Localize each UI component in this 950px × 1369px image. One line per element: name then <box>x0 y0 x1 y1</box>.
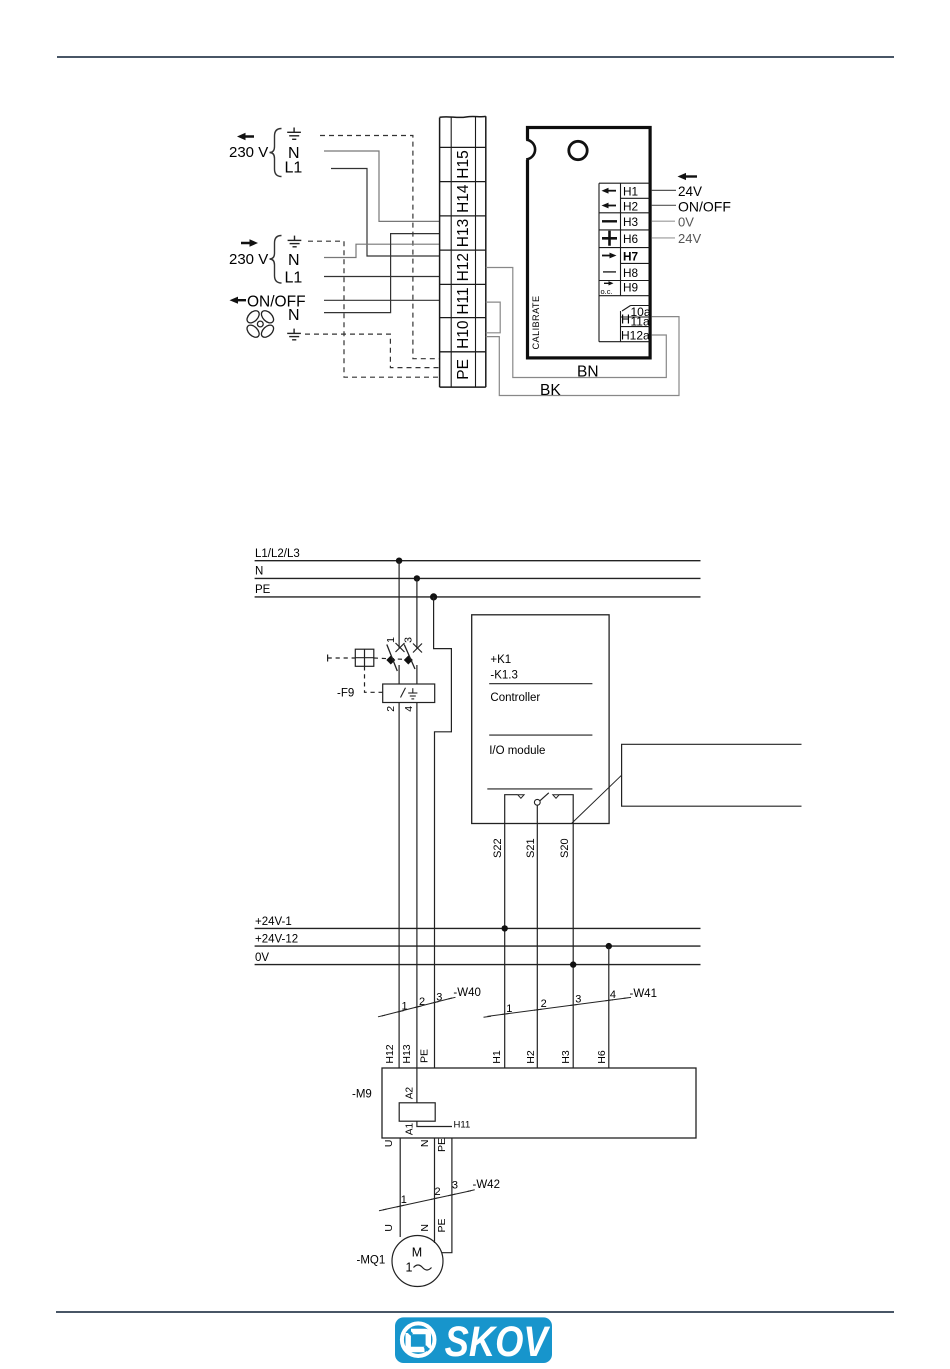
svg-text:PE: PE <box>455 359 472 380</box>
svg-text:1: 1 <box>506 1003 512 1015</box>
wire PE(fan) dashed to terminal PE <box>305 334 440 368</box>
wire N(out) to terminal H13 <box>324 151 440 221</box>
ground symbol (230V out PE) <box>287 128 301 140</box>
breaker F9 trip unit box <box>383 684 435 703</box>
wire N to motor <box>434 1138 436 1243</box>
wire H11 loop to H10 <box>486 302 500 333</box>
wire N(in) to terminal H13 <box>324 244 440 257</box>
svg-text:H2: H2 <box>623 199 638 213</box>
svg-text:H6: H6 <box>596 1050 608 1064</box>
svg-text:H3: H3 <box>623 215 639 229</box>
bus N <box>255 577 701 579</box>
svg-text:L1: L1 <box>285 160 303 177</box>
svg-text:H13: H13 <box>455 219 472 247</box>
ground symbol (fan PE) <box>287 329 301 340</box>
svg-text:L1: L1 <box>285 270 303 287</box>
svg-text:L1/L2/L3: L1/L2/L3 <box>255 548 300 560</box>
svg-text:H14: H14 <box>455 184 472 213</box>
bus L1/L2/L3 <box>255 560 701 562</box>
pin H3 symbol (minus) <box>602 220 617 222</box>
svg-text:BN: BN <box>577 364 599 381</box>
svg-text:4: 4 <box>610 989 616 1001</box>
ground symbol (230V in PE) <box>288 236 302 247</box>
svg-text:N: N <box>288 307 300 324</box>
svg-text:H3: H3 <box>560 1050 572 1064</box>
wire H6 from +24V-12 <box>608 946 610 1068</box>
wire pole2 down to M9 H13 <box>416 703 418 1069</box>
wire PE(out) dashed to terminal PE <box>320 136 440 359</box>
wire H1 24V <box>652 189 676 191</box>
wire H2 ON/OFF <box>652 204 676 206</box>
svg-text:A2: A2 <box>405 1086 416 1099</box>
svg-text:0V: 0V <box>678 214 694 229</box>
node +24V-1 tap <box>502 925 508 931</box>
svg-text:H11: H11 <box>455 287 472 314</box>
svg-text:230 V: 230 V <box>229 144 268 161</box>
wire L1(out) to terminal H12 <box>331 169 440 257</box>
wire pole2 to trip box <box>416 665 418 684</box>
svg-text:2: 2 <box>541 998 547 1010</box>
cable W42 marker <box>383 1191 471 1210</box>
breaker F9 test-button square <box>355 649 374 666</box>
wire S21 down <box>536 824 538 1069</box>
relay contact S22 side <box>505 795 518 824</box>
svg-text:H13: H13 <box>401 1044 413 1063</box>
bus PE <box>255 596 701 598</box>
svg-text:H: H <box>621 313 630 327</box>
wire ON/OFF to terminal H11 <box>324 299 440 301</box>
header rule <box>57 56 894 58</box>
svg-text:1: 1 <box>402 1001 408 1013</box>
relay contact S20 side <box>553 795 559 799</box>
wire N drop <box>416 578 418 648</box>
svg-text:3: 3 <box>403 637 415 643</box>
pin H9 symbol (arrow o.c.) <box>604 281 614 285</box>
footer rule <box>56 1311 894 1313</box>
separator line <box>489 734 592 736</box>
svg-text:H12: H12 <box>384 1044 396 1063</box>
svg-text:BK: BK <box>540 382 561 399</box>
controller unit U1 outline <box>528 128 651 358</box>
breaker pole 2 blade <box>404 645 415 670</box>
dashed actuator link <box>365 666 383 692</box>
arrow (230V in direction) <box>241 239 258 247</box>
wire L1(in) to terminal H12 <box>324 276 440 278</box>
breaker pole 1 X mark <box>396 643 405 652</box>
coil A2 feed wire <box>416 1068 418 1103</box>
svg-text:H10: H10 <box>455 320 472 349</box>
svg-text:PE: PE <box>255 584 271 596</box>
node PE tap <box>430 593 437 600</box>
trip unit earth symbol <box>408 688 417 699</box>
svg-text:CALIBRATE: CALIBRATE <box>531 296 541 350</box>
bus 0V <box>255 964 701 966</box>
breaker pole 1 contact dot <box>386 656 395 665</box>
svg-text:-M9: -M9 <box>352 1089 372 1101</box>
coil A1 wire to H11 <box>417 1121 452 1126</box>
svg-text:2: 2 <box>385 706 397 712</box>
svg-text:N: N <box>419 1140 431 1148</box>
callout box (open right) <box>622 744 802 806</box>
svg-text:PE: PE <box>436 1138 448 1152</box>
relay coil M9 <box>399 1103 435 1121</box>
bus +24V-12 <box>255 945 701 947</box>
svg-text:H9: H9 <box>623 281 638 295</box>
svg-text:1: 1 <box>401 1194 407 1206</box>
pin H2 symbol (arrow in) <box>602 203 617 209</box>
pin H8 symbol (minus) <box>603 271 616 273</box>
brace (230V out) <box>270 129 282 177</box>
arrow (controller supply direction) <box>678 173 698 180</box>
svg-text:H11: H11 <box>454 1120 471 1131</box>
breaker pole 1 blade <box>387 645 398 672</box>
wire pole1 down to M9 H12 <box>398 703 400 1069</box>
separator line <box>487 788 592 790</box>
dashed link line <box>328 657 356 659</box>
terminal strip inner columns <box>451 117 475 388</box>
svg-text:H6: H6 <box>623 232 639 246</box>
wire U to motor <box>399 1138 401 1237</box>
svg-text:H12a: H12a <box>621 329 650 343</box>
node L1 tap <box>396 558 402 564</box>
wire H10 to controller H11a (BK) <box>486 317 679 396</box>
svg-text:I/O module: I/O module <box>489 745 545 757</box>
wire L1 drop <box>398 561 400 648</box>
relay lever <box>540 793 549 801</box>
svg-text:H2: H2 <box>525 1050 537 1064</box>
svg-text:24V: 24V <box>678 184 702 199</box>
pin H1 symbol (arrow in) <box>602 188 617 194</box>
callout pointer line <box>572 775 622 823</box>
svg-text:N: N <box>255 566 263 578</box>
svg-text:+24V-12: +24V-12 <box>255 934 298 946</box>
svg-text:H1: H1 <box>623 185 638 199</box>
svg-text:H7: H7 <box>623 249 639 263</box>
mounting notch <box>523 140 530 160</box>
svg-text:H8: H8 <box>623 266 639 280</box>
svg-text:A1: A1 <box>405 1122 416 1135</box>
svg-text:4: 4 <box>403 706 415 712</box>
wire S22 down <box>504 824 506 1069</box>
svg-text:S21: S21 <box>525 838 537 858</box>
svg-text:U: U <box>383 1140 395 1148</box>
svg-text:-F9: -F9 <box>337 688 354 700</box>
wire PE drop with jog <box>434 597 452 1068</box>
svg-text:-W41: -W41 <box>630 988 657 1000</box>
relay contact common S21 <box>534 799 540 805</box>
trip unit slash <box>401 688 406 698</box>
M9 unit box <box>382 1068 696 1138</box>
svg-text:1: 1 <box>406 1261 413 1275</box>
svg-text:3: 3 <box>452 1179 458 1191</box>
svg-text:S22: S22 <box>492 838 504 858</box>
svg-text:-K1.3: -K1.3 <box>490 669 518 681</box>
cable W40 marker <box>382 998 452 1016</box>
wire PE to motor <box>442 1138 452 1253</box>
pin H6 symbol (plus) <box>602 231 617 246</box>
cable W41 marker <box>487 998 627 1017</box>
node N tap <box>414 575 420 581</box>
svg-text:M: M <box>412 1246 422 1260</box>
svg-text:H15: H15 <box>455 150 472 178</box>
svg-text:N: N <box>419 1224 431 1232</box>
controller pin table grid <box>599 183 650 342</box>
breaker pole 2 contact dot <box>404 656 413 665</box>
svg-text:H12: H12 <box>455 253 472 281</box>
svg-text:H1: H1 <box>491 1050 503 1064</box>
svg-text:Controller: Controller <box>490 692 540 704</box>
svg-text:+K1: +K1 <box>490 654 511 666</box>
svg-text:11a: 11a <box>631 315 650 329</box>
motor MQ1 <box>392 1236 443 1287</box>
svg-text:ON/OFF: ON/OFF <box>678 198 731 214</box>
wire pole1 to trip box <box>398 665 400 684</box>
fan symbol <box>245 308 276 339</box>
controller K1 box <box>472 615 609 824</box>
dashed link left tick <box>327 655 329 662</box>
svg-text:230 V: 230 V <box>229 251 268 268</box>
wire N(fan) to terminal H13 <box>324 234 440 313</box>
terminal strip X1 outline <box>440 116 486 387</box>
svg-text:PE: PE <box>436 1218 448 1232</box>
node +24V-12 tap <box>606 943 612 949</box>
svg-text:1: 1 <box>385 637 397 643</box>
pin H7 symbol (arrow out) <box>602 253 617 259</box>
breaker pole 2 X mark <box>413 644 422 653</box>
svg-text:S20: S20 <box>559 838 571 858</box>
svg-text:PE: PE <box>418 1049 430 1063</box>
svg-text:-W42: -W42 <box>473 1179 500 1191</box>
separator line <box>489 683 592 685</box>
terminal strip cell lines <box>440 147 486 351</box>
svg-text:SKOV: SKOV <box>445 1318 551 1366</box>
svg-text:-MQ1: -MQ1 <box>357 1255 386 1267</box>
brace (230V in) <box>270 236 282 284</box>
wire H3 0V <box>652 220 675 222</box>
svg-text:U: U <box>383 1224 395 1232</box>
wire H6 24V <box>652 237 675 239</box>
wire S20 down <box>572 824 574 1069</box>
svg-text:3: 3 <box>436 992 442 1004</box>
svg-text:3: 3 <box>575 994 581 1006</box>
svg-text:2: 2 <box>419 996 425 1008</box>
wire H12 to controller H12a (BN) <box>486 268 667 378</box>
svg-text:-W40: -W40 <box>453 987 480 999</box>
svg-text:2: 2 <box>435 1186 441 1198</box>
svg-text:0V: 0V <box>255 952 269 964</box>
wire PE(in) dashed to terminal PE <box>308 241 440 377</box>
bus +24V-1 <box>255 927 701 929</box>
arrow (ON/OFF) <box>230 297 247 304</box>
svg-text:+24V-1: +24V-1 <box>255 916 292 928</box>
svg-text:N: N <box>288 252 300 269</box>
arrow (230V out direction) <box>237 133 254 141</box>
svg-text:o.c.: o.c. <box>601 287 613 296</box>
mounting hole <box>569 141 587 159</box>
svg-text:24V: 24V <box>678 231 701 246</box>
node 0V tap <box>570 961 576 967</box>
